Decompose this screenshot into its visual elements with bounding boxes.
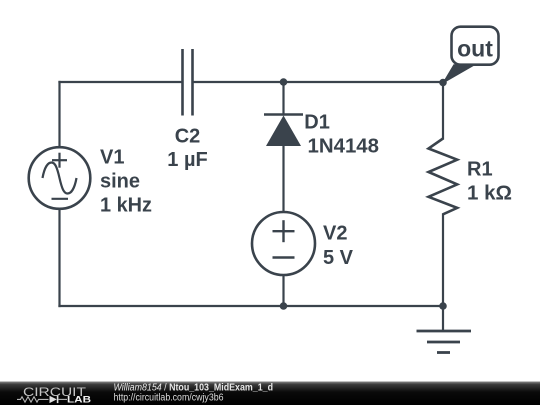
wire out node down to resistor <box>442 82 444 139</box>
R1 labels <box>467 159 512 205</box>
D1 labels <box>304 111 379 157</box>
svg-text:1 kΩ: 1 kΩ <box>467 183 512 205</box>
wire diode to V2 <box>282 146 284 212</box>
V2 labels <box>323 223 354 270</box>
wire resistor to bottom <box>442 214 444 306</box>
junction dot bottom right <box>439 302 447 310</box>
svg-text:sine: sine <box>100 171 140 193</box>
wire top-left horizontal to capacitor <box>60 81 182 83</box>
svg-text:D1: D1 <box>304 111 330 133</box>
wire diode branch top <box>282 82 284 115</box>
voltage source V1 <box>29 147 91 209</box>
wire ground stub <box>442 306 444 331</box>
junction dot bottom V2 <box>280 302 288 310</box>
svg-text:1 kHz: 1 kHz <box>100 195 152 217</box>
wire bottom horizontal <box>60 305 444 307</box>
svg-text:V2: V2 <box>323 223 347 245</box>
logo diode <box>50 396 57 403</box>
junction dot out node <box>439 79 447 87</box>
capacitor C2 <box>183 49 193 116</box>
svg-text:C2: C2 <box>175 126 201 148</box>
capacitor C2 labels <box>167 126 207 172</box>
svg-text:V1: V1 <box>100 147 124 169</box>
wire left vertical top <box>58 82 60 147</box>
voltage source V2 <box>252 212 315 275</box>
ground <box>417 331 472 353</box>
svg-text:1N4148: 1N4148 <box>308 136 380 158</box>
svg-text:1 µF: 1 µF <box>167 149 207 171</box>
logo resistor zigzag <box>17 397 49 402</box>
svg-text:R1: R1 <box>467 159 493 181</box>
svg-text:LAB: LAB <box>67 394 92 404</box>
node out flag <box>443 27 499 83</box>
diode D1 <box>264 115 303 147</box>
junction dot top diode <box>280 78 288 86</box>
svg-text:out: out <box>457 35 493 61</box>
wire V2 to bottom <box>282 275 284 306</box>
logo wire to LAB <box>58 398 67 400</box>
V1 labels <box>100 147 152 217</box>
svg-text:http://circuitlab.com/cwjy3b6: http://circuitlab.com/cwjy3b6 <box>114 393 224 404</box>
resistor R1 <box>429 139 458 215</box>
wire top horizontal capacitor to out node <box>194 81 444 83</box>
svg-text:5 V: 5 V <box>323 247 354 269</box>
wire left vertical bottom <box>58 209 60 306</box>
